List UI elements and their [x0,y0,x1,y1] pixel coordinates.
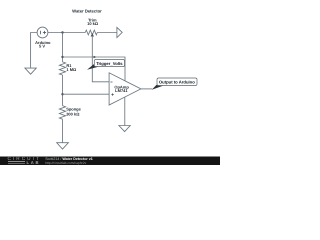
svg-text:Water Detector: Water Detector [72,8,102,13]
svg-text:1 MΩ: 1 MΩ [66,67,77,72]
wire junction C to op-amp plus input [63,93,110,95]
potentiometer Trim 10 kΩ [85,30,97,35]
net flag arrow [117,27,122,37]
svg-text:10 kΩ: 10 kΩ [87,21,99,26]
footer logo CIRCUIT LAB [8,156,41,161]
footer bar [0,156,220,167]
voltage source V1 Arduino 5V [37,27,48,38]
svg-text:300 kΩ: 300 kΩ [66,111,80,116]
wire op-amp V- to ground [124,97,126,125]
flag anchor arrow on 5V wire [94,56,97,58]
net flag Trigger_Volts [87,64,98,70]
resistor R1 1 MΩ [59,62,65,75]
ground GND1 [25,68,36,74]
wire R1 bottom to sponge [62,75,64,106]
wire source left [31,33,37,69]
node junction B [61,56,63,58]
footer text line 1 [45,157,93,161]
svg-text:Trigger_Volts: Trigger_Volts [96,61,123,66]
wire sponge to ground [62,119,64,143]
wire 5V rail to op-amp V+ [63,57,126,81]
node junction A [61,31,63,33]
ground GND2 [57,143,69,149]
node junction C [61,93,63,95]
wire pot wiper to op-amp minus input [92,36,109,82]
net flag Output to Arduino [152,85,164,90]
wire op-amp output [141,88,152,90]
ground GND3 [119,126,130,132]
svg-text:5 V: 5 V [39,44,45,49]
op-amp U1 LM741 [109,73,141,105]
svg-text:Output to Arduino: Output to Arduino [159,80,195,85]
wire junction A down to R1 [62,33,64,62]
resistor R2 Sponge 300 kΩ [59,106,65,120]
wire top rail source to pot [48,32,85,34]
svg-text:LM741: LM741 [115,88,128,93]
wire pot right to net flag [97,32,117,34]
footer text line 2 [45,161,86,165]
